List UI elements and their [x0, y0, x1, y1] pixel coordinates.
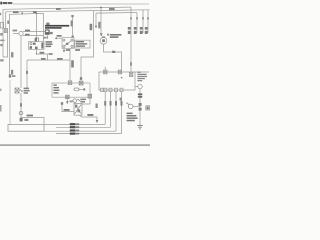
- squiggle left of M2: [126, 103, 129, 105]
- wire control head to mode switch: [82, 98, 90, 104]
- faint left margin mark low: [0, 89, 1, 92]
- motor M1 name text: [110, 34, 122, 38]
- wire mode switch output y117: [79, 115, 81, 117]
- small box far right: [146, 106, 150, 110]
- relay K2 terminals: [63, 39, 65, 41]
- label on y54 wire: [40, 52, 45, 54]
- label RD/WH on bus C: [13, 11, 19, 13]
- splice circle S1: [19, 31, 23, 35]
- arrow end at x97: [96, 120, 99, 123]
- connector mark on F1 wire: [130, 62, 132, 66]
- fuse F4 body and label: [147, 25, 149, 33]
- wire bus C to relay x=43.5: [43, 13, 45, 41]
- dark mark below splice: [20, 118, 23, 122]
- label beside x=43.5 wire: [46, 23, 49, 26]
- vertical label beside x93.5: [90, 24, 93, 30]
- label above K2 input: [57, 35, 62, 37]
- thermostat label text: [24, 88, 30, 94]
- small mark above right of motor: [107, 34, 109, 36]
- fuse F1 body and label: [130, 25, 132, 33]
- connector tick F2: [136, 17, 138, 19]
- label right of x21 bottom: [24, 119, 28, 121]
- wire blower motor feed y86.5: [135, 86, 138, 88]
- wire down from C1: [139, 89, 141, 126]
- top rule line: [13, 3, 149, 5]
- wire M2 to x140: [133, 106, 140, 108]
- relay K2 switch arm: [65, 41, 71, 46]
- connector tick F4: [147, 17, 149, 19]
- thermostat squiggle: [20, 90, 23, 92]
- label RD near node: [33, 11, 37, 13]
- vertical wire label beside x70: [71, 60, 74, 67]
- wire bus A drop x=101 to motor: [100, 8, 102, 35]
- diode D1 on coil wire: [35, 38, 39, 41]
- connector tick on x81: [80, 77, 82, 80]
- fuse drop F2 x=137: [136, 13, 138, 26]
- label RD on bus A mid: [56, 8, 61, 10]
- wire bus B drop x=93.5 with jog to x=81: [81, 11, 94, 81]
- connector X-box top 1: [104, 70, 108, 74]
- bottom rule line: [0, 144, 150, 146]
- inline fuse box: [46, 30, 49, 33]
- control head text: [53, 84, 59, 93]
- speed wire 2 x=110.5: [110, 92, 112, 128]
- wire bus C right: [96, 13, 137, 27]
- relay K1 coil circle: [30, 43, 32, 45]
- label on y117 wire: [27, 115, 33, 117]
- wire splice down: [20, 36, 22, 88]
- motor M2 circle: [128, 104, 133, 109]
- wire label stack: [70, 123, 76, 135]
- wire below thermostat x=21: [20, 93, 22, 117]
- vertical label beside x101: [98, 22, 100, 29]
- connector X-box on left wire: [4, 29, 7, 33]
- wire bus C left (RD/WH): [9, 13, 43, 77]
- title text "AT Operation": [0, 2, 12, 5]
- speed wire 4 x=121.5: [121, 92, 123, 134]
- speed wire 3 x=116: [115, 92, 117, 132]
- wire into K2 top x=72.5: [72, 17, 74, 38]
- arrow below small box: [46, 34, 48, 37]
- fuse drop F1 x=131: [130, 7, 132, 25]
- label below jog: [0, 59, 3, 61]
- connector arrow end of x10 upper: [9, 74, 11, 77]
- label beside small box: [50, 32, 53, 34]
- wire x27 down to thermostat: [26, 60, 28, 88]
- from-arrow into mode switch left: [61, 102, 63, 105]
- wire K2 output x=70 down to control head: [69, 48, 71, 81]
- K2 output arrow down x=64: [63, 48, 65, 50]
- label right of control head arrow: [70, 100, 73, 102]
- wire node to relay coil x=36.5: [36, 13, 38, 41]
- blower switch box outline: [99, 72, 135, 90]
- connector X-box top 2: [118, 70, 122, 74]
- connector X-box control head top 1: [68, 81, 72, 85]
- label RD on bus B right: [109, 8, 115, 10]
- resistor wire 4: [56, 133, 122, 135]
- label on y60 right: [57, 58, 63, 60]
- stub down x=105: [104, 67, 106, 70]
- wire bus B (RD): [6, 10, 150, 29]
- connector circle C1: [138, 84, 142, 88]
- fuse drop F4 x=148: [147, 10, 149, 25]
- resistor oval inside control head: [74, 88, 79, 91]
- junction dot under K1: [36, 53, 37, 54]
- blower switch box top edge wire: [99, 71, 149, 73]
- controller label text: [127, 113, 138, 122]
- label left margin 1: [0, 33, 2, 36]
- connector tick F1: [130, 17, 132, 19]
- connector tick above K2: [72, 36, 74, 38]
- fuse drop F3 x=143: [142, 10, 144, 25]
- label beside x10 wire mid: [11, 52, 13, 57]
- connector X-box control head bottom: [66, 95, 70, 99]
- label on output wire: [87, 114, 93, 116]
- wire x10 lower segment: [9, 80, 11, 125]
- wire K1 output down: [37, 50, 48, 61]
- label above splice: [13, 30, 18, 32]
- mode switch circle label: [73, 99, 77, 103]
- small box under ATC text: [45, 30, 49, 34]
- fuse F2 body and label: [136, 25, 138, 33]
- mode switch internals: [75, 104, 82, 113]
- label on y31.5 wire: [25, 30, 30, 32]
- arrow below control head: [66, 99, 68, 102]
- connector X-box under F1 junction: [129, 72, 132, 76]
- arrow end of x96 stub: [95, 26, 97, 29]
- fuse F3 body and label: [142, 25, 144, 33]
- label on y60 left: [41, 58, 46, 60]
- label on x140 wire: [138, 93, 142, 95]
- switch name text right of box: [137, 72, 147, 82]
- relay K2 center mark: [66, 43, 68, 45]
- label right of K2 output arrow: [66, 49, 70, 51]
- blower motor M1: [100, 37, 107, 44]
- label on y35.5 wire: [25, 34, 30, 36]
- wire bus A (RD): [3, 7, 131, 57]
- wire y35.5: [23, 35, 44, 37]
- connector dash on x21: [20, 103, 22, 106]
- speed wire 1 x=105: [104, 92, 106, 125]
- connector tick on bus C: [22, 12, 23, 14]
- resistor wire 2: [56, 126, 111, 128]
- connector tick on x27: [26, 71, 28, 74]
- relay K2 box: [62, 38, 74, 49]
- mode switch box: [74, 103, 82, 115]
- label right of x10 arrow: [12, 75, 15, 77]
- label dash beside bus C vertical: [7, 21, 9, 24]
- ATC text block: [45, 25, 69, 29]
- connector ticks on speed wires: [104, 101, 122, 106]
- arrow into motor: [100, 33, 103, 36]
- wire F1 down to blower switch box: [130, 33, 132, 72]
- wire y31.5 to fuse box: [23, 31, 46, 33]
- ground G1: [137, 125, 143, 128]
- connector X-box control head top 2: [79, 81, 83, 85]
- junction dot at (101,7): [100, 7, 102, 9]
- relay K1 internal marks: [30, 42, 44, 49]
- connector box on left margin: [0, 23, 3, 28]
- X-boxes on switch box bottom edge: [101, 88, 123, 91]
- label above left input: [64, 109, 70, 111]
- control head box: [52, 83, 90, 97]
- wire jog bottom of bus A: [3, 33, 8, 57]
- wire y60 DG: [27, 59, 70, 61]
- junction dot inside box: [121, 77, 123, 79]
- from-arrow into relay K2: [55, 37, 57, 39]
- K2 name text box: [75, 40, 90, 48]
- label beside x10: [11, 70, 13, 75]
- connector tick F3: [142, 17, 144, 19]
- vertical label beside x97 wire: [96, 104, 98, 109]
- faint left margin mark: [0, 105, 2, 112]
- junction dot on bus C: [36, 13, 38, 15]
- wire y117 to resistor box: [21, 117, 44, 124]
- wire motor output to switch box: [104, 44, 122, 70]
- label left margin 3: [0, 44, 2, 46]
- label beside x72.5 wire: [71, 20, 73, 26]
- resistor wire 1: [44, 123, 105, 125]
- resistor block box: [8, 125, 44, 132]
- left margin tick near bus nest: [0, 13, 1, 15]
- mode switch label text: [80, 99, 86, 103]
- relay K1 box: [29, 42, 45, 50]
- squiggle beside circle: [77, 99, 80, 101]
- thermostat cluster: [15, 88, 19, 93]
- label under K2 text box: [75, 49, 80, 51]
- vertical label beside speed wire 4: [120, 98, 122, 101]
- connector tick x=43.5: [44, 37, 46, 39]
- label left margin 2: [0, 40, 4, 42]
- controller transistor marks: [139, 103, 142, 106]
- splice circle on x21: [19, 111, 23, 115]
- resistor wire 3: [44, 130, 116, 132]
- connector X-box control head right-bottom: [88, 94, 92, 98]
- label right of x47.5: [49, 53, 53, 55]
- relay K1 name text: [46, 41, 53, 47]
- connector tick at top of x72.5: [71, 15, 73, 17]
- connector tick near corner: [112, 51, 115, 53]
